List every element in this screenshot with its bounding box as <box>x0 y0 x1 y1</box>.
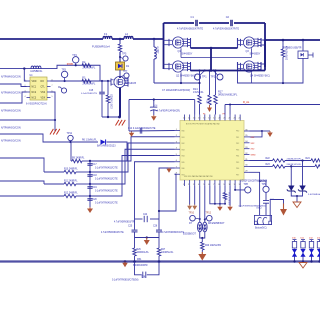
capacitor C21 <box>265 192 267 200</box>
earth ground triangle bottom <box>302 262 304 263</box>
svg-text:N/TP/WAGO/CON: N/TP/WAGO/CON <box>1 110 21 113</box>
svg-text:L2: L2 <box>125 32 129 36</box>
wire button right to arrow <box>270 200 283 222</box>
svg-text:VSS: VSS <box>41 92 46 94</box>
svg-text:PB7: PB7 <box>236 174 239 176</box>
resistor R11 <box>44 183 64 185</box>
svg-text:0.1uF/X5R/0603/B/TR(NICI): 0.1uF/X5R/0603/B/TR(NICI) <box>239 205 267 207</box>
IC U1 left pins <box>175 130 181 132</box>
resistor R21 <box>224 186 226 193</box>
svg-text:PA3: PA3 <box>182 148 185 151</box>
wire VCC down to IC pin4 <box>194 100 196 115</box>
svg-text:R23: R23 <box>266 164 271 166</box>
wire gate line top <box>181 57 252 59</box>
earth ground triangle <box>293 202 301 208</box>
test point TP7 <box>124 73 129 78</box>
TVS diode D5 <box>290 166 292 185</box>
inductor L2 <box>124 36 133 39</box>
svg-text:PA4: PA4 <box>182 155 185 158</box>
svg-text:GZM5V1/SOD: GZM5V1/SOD <box>110 94 112 109</box>
wire Q4 gate stub <box>251 72 253 83</box>
svg-text:DO: DO <box>41 81 45 83</box>
svg-text:C26: C26 <box>153 226 158 228</box>
transistor Q5 <box>114 76 125 87</box>
resistor R24 <box>311 159 320 162</box>
wire W1 net <box>0 65 100 81</box>
resistor R25 <box>315 165 320 168</box>
IC U1 bottom pins <box>184 180 186 186</box>
wire Q2 gate stub <box>180 72 182 83</box>
svg-text:P8: P8 <box>223 114 225 116</box>
wire C25 C26 join <box>134 232 136 238</box>
power arrow big below R20 <box>201 250 203 252</box>
wire Q5 gate node <box>107 80 109 82</box>
svg-text:VDD: VDD <box>32 81 37 83</box>
svg-text:PB1: PB1 <box>236 137 239 139</box>
resistor R3 <box>82 79 91 82</box>
svg-text:6-VSSOP/SOT23-6: 6-VSSOP/SOT23-6 <box>26 103 47 106</box>
svg-text:TP4: TP4 <box>72 54 77 57</box>
svg-text:VDX: VDX <box>41 98 46 100</box>
svg-text:SWD: SWD <box>251 155 257 157</box>
svg-text:D8 ESD5B/SOT: D8 ESD5B/SOT <box>208 223 225 225</box>
inductor L1 vertical <box>153 38 156 41</box>
wire VBAT thick right <box>265 39 320 41</box>
svg-text:BOOT0 PF0 PF1 NRST VDDA P: BOOT0 PF0 PF1 NRST VDDA PA0 PA1 PA2 <box>186 123 220 126</box>
diode D10 bottom row <box>294 249 296 262</box>
svg-text:N/TP/WAGO/CON: N/TP/WAGO/CON <box>1 140 21 143</box>
svg-text:C18: C18 <box>93 175 98 177</box>
svg-text:4.7uF/DIP/CAP(NICR): 4.7uF/DIP/CAP(NICR) <box>157 109 180 112</box>
test point TP1 <box>195 74 201 80</box>
wire D2 to bundle <box>107 142 128 161</box>
wire W6 net row2 <box>0 158 44 172</box>
wire right thick vertical <box>264 23 266 71</box>
wire TVS join to earth <box>291 191 302 196</box>
power arrow under C7 <box>153 115 155 116</box>
wire net R_AL y104.5 <box>225 104 320 106</box>
wire net SW y83 <box>154 82 200 84</box>
svg-text:7: 7 <box>52 85 53 87</box>
capacitor C7 polarized <box>153 98 155 100</box>
svg-text:4: 4 <box>25 96 26 98</box>
svg-text:C1: C1 <box>191 15 195 19</box>
resistor R12 <box>44 195 64 197</box>
wire top cap rail <box>164 22 195 24</box>
svg-text:PB2: PB2 <box>236 143 239 145</box>
svg-text:Q4 SI4435DY(NC): Q4 SI4435DY(NC) <box>250 75 270 78</box>
TVS diode D6 <box>302 161 304 186</box>
svg-text:100R/NL/FL: 100R/NL/FL <box>137 252 150 254</box>
ESD diode D7 <box>199 186 201 222</box>
svg-text:NC1: NC1 <box>32 87 37 89</box>
svg-text:C15: C15 <box>89 90 94 92</box>
svg-text:BAT54W/SOD123: BAT54W/SOD123 <box>97 145 116 148</box>
svg-text:C7 100uF/DIP/CAP(NICR): C7 100uF/DIP/CAP(NICR) <box>162 89 190 92</box>
svg-text:VSS VDD PA3 PA4 PA5 PA6 PA7 PB: VSS VDD PA3 PA4 PA5 PA6 PA7 PB0 <box>184 175 213 178</box>
svg-text:DMG9435: DMG9435 <box>126 83 137 85</box>
wire net row R22 <box>250 160 273 162</box>
svg-text:R22: R22 <box>266 158 271 160</box>
svg-text:TP10: TP10 <box>189 213 195 215</box>
wire bottom ground rail <box>0 260 320 262</box>
wire pin R1 R2 loop to gnd <box>250 131 263 137</box>
wire U2 VSS to ground <box>51 92 56 131</box>
transistor Q3 <box>243 37 254 48</box>
capacitor C18 <box>87 174 92 176</box>
svg-text:TP1: TP1 <box>202 76 207 79</box>
diode D11 bottom row <box>302 249 304 262</box>
svg-text:0.1uF/X7R/0402/C/TE: 0.1uF/X7R/0402/C/TE <box>95 203 118 205</box>
svg-text:PB6: PB6 <box>236 168 239 170</box>
svg-text:TP9: TP9 <box>262 183 267 186</box>
resistor R17 <box>215 71 217 96</box>
svg-text:NC3: NC3 <box>32 98 37 100</box>
resistor R23 <box>273 165 286 168</box>
test point TP11 <box>68 135 73 140</box>
svg-text:240R/5%/FL: 240R/5%/FL <box>83 68 96 70</box>
svg-text:240(NL)/5%/FL: 240(NL)/5%/FL <box>287 158 303 160</box>
test point TP5 <box>123 56 128 61</box>
svg-text:C24: C24 <box>143 214 148 216</box>
svg-text:R21 4.7k/5%: R21 4.7k/5% <box>228 193 230 206</box>
wire W-B DO net <box>51 80 108 82</box>
wire net row R23 <box>250 165 273 167</box>
svg-text:F1: F1 <box>104 32 108 36</box>
svg-text:LM/NBD/FL: LM/NBD/FL <box>30 71 43 73</box>
svg-text:PA5: PA5 <box>182 161 185 164</box>
test point TP10 <box>190 215 196 221</box>
test point TP9 <box>263 186 269 192</box>
wire cap common vertical <box>89 161 91 207</box>
svg-text:C14 0.1uF/X5R/0402/C/TE: C14 0.1uF/X5R/0402/C/TE <box>128 128 156 130</box>
svg-text:R10 240R/FL: R10 240R/FL <box>64 169 78 171</box>
ground arrow on rail left <box>124 260 127 263</box>
transistor Q1 <box>172 37 183 48</box>
svg-text:0.1uF/X7R/0402/C/TE: 0.1uF/X7R/0402/C/TE <box>95 179 118 181</box>
power arrow cap column <box>89 207 91 209</box>
wire bus row4 to pin L5 <box>90 156 175 197</box>
wire W8 net row4 <box>0 195 44 197</box>
wire ESD join <box>200 232 205 238</box>
wire pin B7 down <box>214 186 216 204</box>
svg-text:4.7uF/50V/0603/X7R/TE: 4.7uF/50V/0603/X7R/TE <box>177 28 203 31</box>
wire W4 net <box>0 119 55 121</box>
svg-text:R26: R26 <box>137 249 142 251</box>
diode D13 bottom row <box>319 249 320 262</box>
test point TP8 <box>245 187 251 193</box>
svg-text:PB4: PB4 <box>236 156 239 158</box>
wire pin B3 to arrow <box>194 186 196 205</box>
svg-text:ESD5B/SOT: ESD5B/SOT <box>183 234 196 236</box>
svg-text:1%/NL/FL: 1%/NL/FL <box>193 91 204 94</box>
power arrow bundle top <box>131 132 133 133</box>
svg-text:0.1uF/X7R/0603/C/TE(NI): 0.1uF/X7R/0603/C/TE(NI) <box>112 280 139 282</box>
fuse F1 <box>103 36 112 39</box>
svg-text:C2: C2 <box>226 15 230 19</box>
wire left thick vertical <box>163 23 165 69</box>
wire pin L7 to C26 chain <box>159 168 175 230</box>
wire pin R8 to button <box>250 172 260 215</box>
svg-text:TP7: TP7 <box>123 70 128 73</box>
ESD diode D8 <box>204 186 206 222</box>
LED D1 yellow <box>116 62 125 70</box>
svg-text:240(NL)/5%/FL: 240(NL)/5%/FL <box>287 164 303 166</box>
svg-text:R24: R24 <box>306 158 311 160</box>
ground GND1 red <box>116 120 119 126</box>
svg-text:0.1uF/X7R/0402/C/TE: 0.1uF/X7R/0402/C/TE <box>95 191 118 193</box>
capacitor C2 <box>230 20 232 26</box>
wire W5 net <box>0 134 98 142</box>
wire bus row1 to pin L2 <box>90 137 175 161</box>
svg-text:TP3: TP3 <box>62 69 67 72</box>
svg-text:5: 5 <box>52 96 53 98</box>
svg-text:TP8: TP8 <box>244 183 249 186</box>
svg-text:R6 1.5k/NL/FL: R6 1.5k/NL/FL <box>82 140 98 142</box>
svg-text:5.6V/SMF/dio: 5.6V/SMF/dio <box>308 194 320 196</box>
svg-text:Q2 SI4435DY(NC): Q2 SI4435DY(NC) <box>176 75 196 78</box>
svg-text:C20: C20 <box>93 199 98 201</box>
wire phase rail upper <box>191 47 238 49</box>
wire pin B8 to arrow <box>219 186 221 206</box>
svg-text:R20 10k/NL/5%: R20 10k/NL/5% <box>205 245 221 247</box>
test point TP3 <box>61 71 67 77</box>
svg-text:PA6: PA6 <box>182 167 185 170</box>
wire pin B11 to TP8 <box>235 186 245 190</box>
svg-text:0.1uF/X5R/C/TE: 0.1uF/X5R/C/TE <box>81 93 98 95</box>
wire pin L8 down <box>159 174 176 211</box>
svg-text:0.1uF/X7R/0402/C/TE: 0.1uF/X7R/0402/C/TE <box>95 168 118 170</box>
svg-text:N/TP/WAGO/CON: N/TP/WAGO/CON <box>1 92 21 95</box>
wire bus row2 to pin L3 <box>90 143 175 172</box>
capacitor C19 <box>87 186 92 188</box>
wire pin B12 down <box>239 186 241 207</box>
test point TP4 <box>73 57 79 63</box>
resistor R26 <box>134 238 136 249</box>
diode U3 pack <box>302 39 305 42</box>
wire phase rail lower <box>191 70 266 72</box>
wire Q right vertical to VBAT <box>264 40 266 67</box>
resistor R14 <box>199 71 201 96</box>
svg-text:N/TP/WAGO/CON: N/TP/WAGO/CON <box>1 76 21 79</box>
svg-text:4.7uF/X5R/0603/TR: 4.7uF/X5R/0603/TR <box>114 222 135 224</box>
svg-text:4.7uF/X5R/0603/C/TE: 4.7uF/X5R/0603/C/TE <box>162 232 185 234</box>
wire W2 net <box>0 84 27 87</box>
wire zener to gnd node <box>102 116 120 118</box>
svg-text:P/OB: P/OB <box>67 63 73 66</box>
svg-text:TP12: TP12 <box>206 213 212 215</box>
resistor R15 <box>209 71 211 96</box>
svg-text:Button(NC): Button(NC) <box>255 227 267 230</box>
resistor R22 <box>273 159 286 162</box>
svg-text:R9 240R/FL: R9 240R/FL <box>72 158 85 160</box>
capacitor C24 bridge <box>135 218 143 220</box>
svg-text:C28: C28 <box>141 277 146 279</box>
wire Q3 gate stub <box>251 48 253 57</box>
capacitor C14 on VDD row <box>139 128 141 134</box>
wire net VCC y99.5 <box>129 99 195 101</box>
svg-text:TP11: TP11 <box>67 132 73 135</box>
power arrow button <box>283 204 285 210</box>
svg-text:(NC): (NC) <box>257 208 262 210</box>
wire pin B10 to arrow <box>229 186 231 206</box>
wire row1 from TP11 junction <box>71 142 76 161</box>
svg-text:PB5: PB5 <box>236 162 239 164</box>
resistor R5 vertical <box>119 39 121 44</box>
resistor R4 <box>282 40 284 49</box>
svg-text:FUSE/MF/10x4: FUSE/MF/10x4 <box>92 45 110 49</box>
resistor R9 <box>64 160 71 162</box>
diode D2 BAT54 <box>101 139 106 144</box>
capacitor C15 shunt <box>101 80 103 82</box>
capacitor C17 <box>87 163 92 165</box>
svg-text:PB0: PB0 <box>236 131 239 133</box>
resistor R27 <box>158 238 160 249</box>
svg-text:4.7uF/50V/0603/X7R/TE: 4.7uF/50V/0603/X7R/TE <box>213 28 239 31</box>
svg-text:L1/4R7: L1/4R7 <box>156 46 158 54</box>
svg-text:TP5: TP5 <box>122 53 127 56</box>
connector U2 body <box>30 77 47 100</box>
svg-text:FB1: FB1 <box>137 258 142 261</box>
resistor R2 <box>82 64 91 67</box>
diode D12 bottom row <box>311 249 313 262</box>
ground GND2 red <box>50 129 53 135</box>
wire pin L6 to C25 chain <box>135 162 175 230</box>
wire Q5 source thick down <box>119 88 121 118</box>
svg-text:R27: R27 <box>161 249 166 251</box>
svg-text:PB3: PB3 <box>236 149 239 151</box>
power arrow between caps <box>146 238 148 241</box>
svg-text:CTL: CTL <box>41 87 46 89</box>
svg-text:NC2: NC2 <box>32 92 37 94</box>
test point TP2 <box>217 74 223 80</box>
svg-text:C19: C19 <box>93 187 98 189</box>
capacitor C1 <box>195 20 197 26</box>
svg-text:R15: R15 <box>206 99 209 104</box>
test point TP6 <box>61 88 66 93</box>
IC U1 body <box>180 121 244 181</box>
svg-text:C25: C25 <box>128 226 133 228</box>
resistor R10 <box>44 171 64 173</box>
wire net right y83 <box>238 58 304 83</box>
svg-text:TP2: TP2 <box>211 76 216 79</box>
capacitor C20 <box>87 198 92 200</box>
svg-text:R12 240R/FL: R12 240R/FL <box>64 193 78 195</box>
svg-text:PA0: PA0 <box>182 130 185 133</box>
svg-text:SI4435DY: SI4435DY <box>182 53 193 56</box>
svg-text:4.7uF/X5R/0603/C/TE: 4.7uF/X5R/0603/C/TE <box>101 232 124 234</box>
wire LED to Q5 <box>119 70 121 77</box>
capacitor C28 loop <box>135 262 142 275</box>
power arrow bundle mid <box>168 168 170 169</box>
wire pin B6 L-shape <box>210 186 220 204</box>
transistor Q4 <box>243 61 254 72</box>
svg-text:100R/NL/FL: 100R/NL/FL <box>161 252 174 254</box>
power arrow under R15 <box>209 105 211 108</box>
wire VIN main top rail <box>0 38 103 40</box>
wire U2 pin1 <box>24 69 26 81</box>
resistor R20 <box>201 238 203 242</box>
svg-text:PA2: PA2 <box>182 142 185 145</box>
zener D3 vertical <box>107 81 109 95</box>
svg-text:0R05/1%/0612/FL: 0R05/1%/0612/FL <box>218 94 238 97</box>
wire Q1 gate stub <box>180 48 182 57</box>
wire rail join vertical <box>210 48 212 71</box>
IC U1 top pins <box>184 115 186 121</box>
svg-text:R_AL: R_AL <box>243 101 250 104</box>
svg-text:R11 240R/FL: R11 240R/FL <box>64 181 78 183</box>
test point TP12 <box>207 215 213 221</box>
svg-text:PA1: PA1 <box>182 136 185 139</box>
transistor Q2 <box>172 61 183 72</box>
svg-text:240R/5%/FL: 240R/5%/FL <box>83 83 96 85</box>
wire bus row3 to pin L4 <box>90 149 175 184</box>
wire W7 net row3 <box>0 181 44 184</box>
svg-text:600R/100MHz: 600R/100MHz <box>133 265 149 267</box>
wire pin B2 to arrow <box>189 186 191 205</box>
svg-text:N/TP/WAGO/CON: N/TP/WAGO/CON <box>1 127 21 130</box>
wire VDD cap row to pin L1 <box>129 130 175 133</box>
inductor FB2 on W1 <box>31 66 41 69</box>
svg-text:1R/PMEG/USB/TR: 1R/PMEG/USB/TR <box>282 48 302 50</box>
svg-text:C17: C17 <box>93 164 98 166</box>
wire W3 net <box>0 92 27 103</box>
wire TP9 branch <box>260 181 266 186</box>
IC U1 right pins <box>244 130 250 132</box>
